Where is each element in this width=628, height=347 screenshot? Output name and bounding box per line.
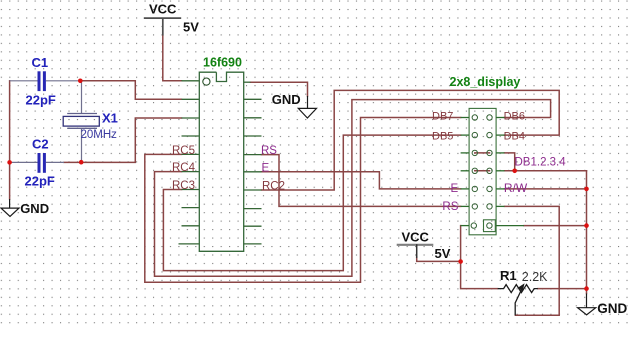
svg-text:20MHz: 20MHz	[81, 129, 118, 141]
svg-text:RC5: RC5	[172, 145, 195, 157]
svg-text:GND: GND	[272, 92, 301, 107]
svg-text:VCC: VCC	[149, 2, 177, 17]
svg-text:E: E	[262, 162, 270, 174]
svg-text:X1: X1	[102, 111, 118, 126]
svg-text:5V: 5V	[435, 246, 451, 261]
svg-text:2x8_display: 2x8_display	[450, 75, 521, 89]
svg-text:C2: C2	[32, 137, 49, 152]
svg-text:DB7: DB7	[432, 111, 453, 123]
svg-text:R1: R1	[500, 268, 517, 283]
svg-text:DB1.2.3.4: DB1.2.3.4	[515, 157, 567, 169]
svg-text:E: E	[451, 183, 459, 195]
svg-text:RC3: RC3	[172, 180, 195, 192]
svg-text:22pF: 22pF	[26, 93, 56, 108]
svg-text:VCC: VCC	[402, 230, 430, 245]
svg-text:16f690: 16f690	[203, 56, 242, 70]
svg-text:C1: C1	[32, 55, 49, 70]
svg-text:2.2K: 2.2K	[522, 270, 548, 284]
svg-text:RC2: RC2	[262, 181, 285, 193]
svg-text:RS: RS	[442, 201, 458, 213]
svg-text:RS: RS	[261, 145, 277, 157]
svg-text:22pF: 22pF	[25, 174, 55, 189]
svg-text:GND: GND	[597, 301, 627, 316]
svg-text:GND: GND	[20, 201, 49, 216]
svg-text:DB5: DB5	[432, 130, 453, 142]
svg-text:R/W: R/W	[504, 181, 528, 195]
svg-text:5V: 5V	[183, 20, 199, 35]
svg-text:DB6: DB6	[504, 111, 525, 123]
svg-text:DB4: DB4	[504, 130, 525, 142]
svg-text:RC4: RC4	[172, 162, 196, 174]
